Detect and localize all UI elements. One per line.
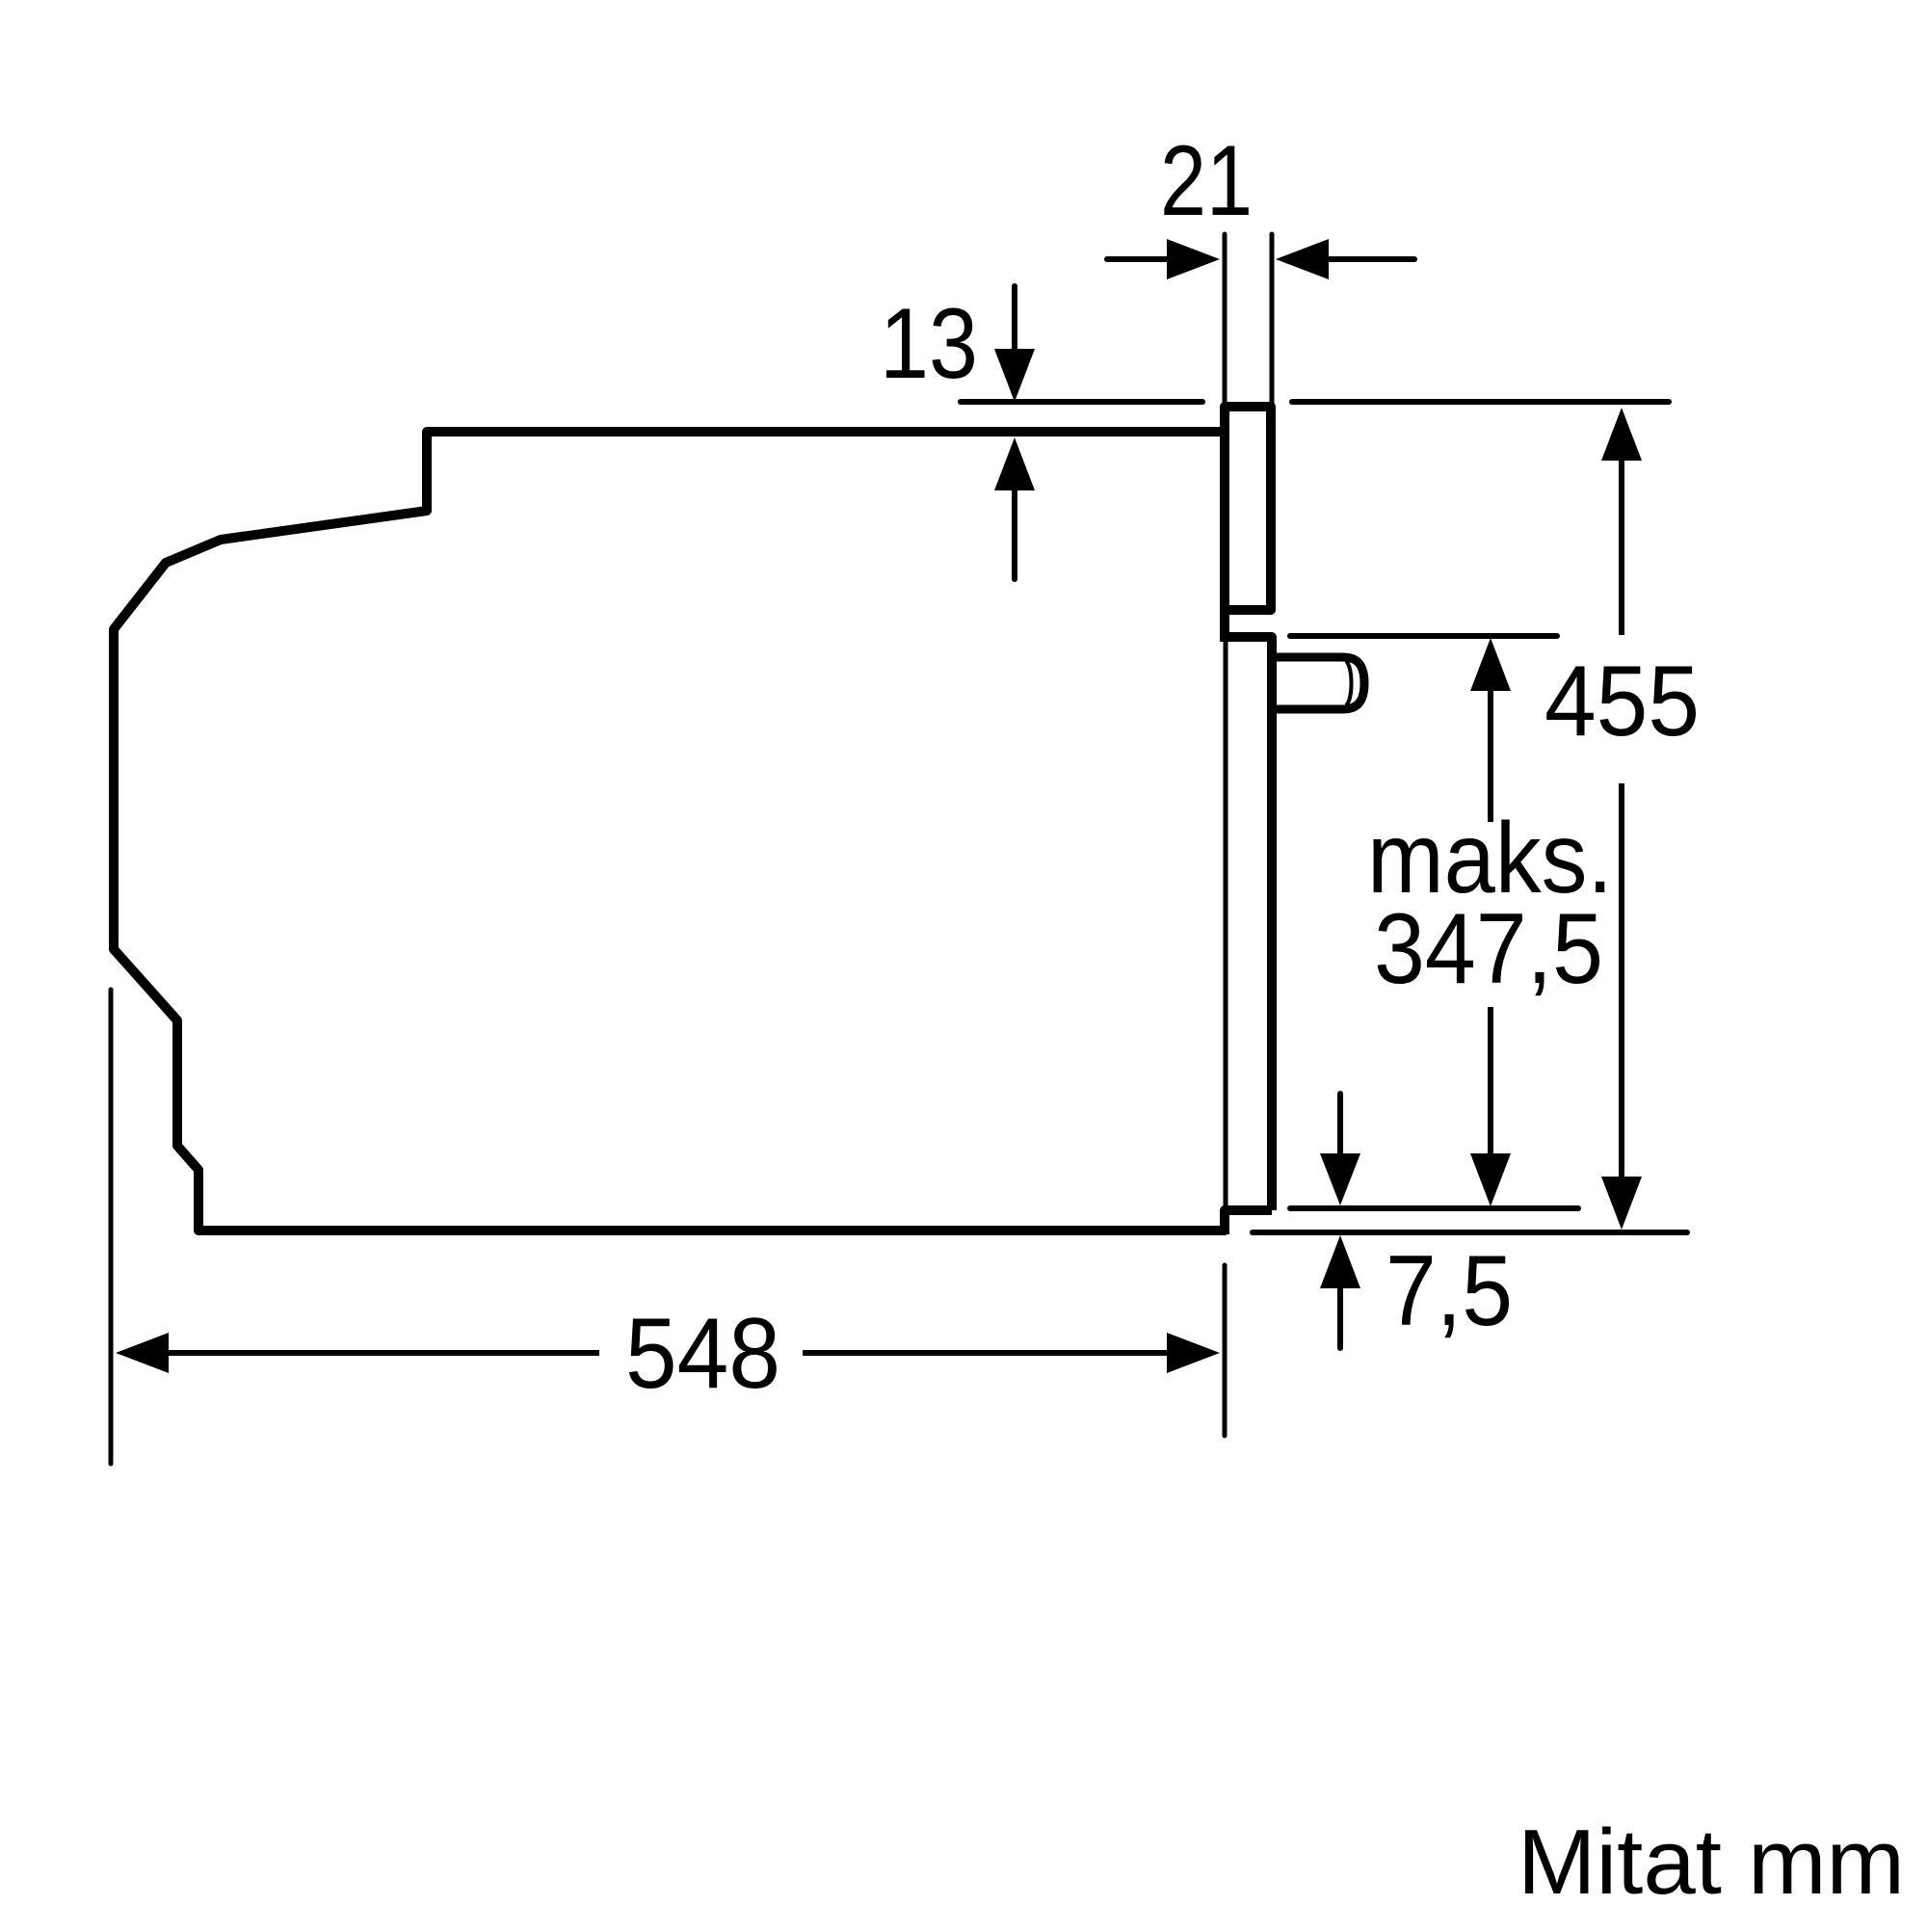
knob cap inner arc	[1347, 662, 1352, 704]
ref line top left	[961, 399, 1202, 405]
dim 455 top arrow	[1601, 408, 1642, 461]
oven body outline	[114, 432, 1225, 1231]
svg-text:13: 13	[880, 288, 978, 400]
svg-text:Mitat mm: Mitat mm	[1518, 1811, 1905, 1914]
dim 347.5 bottom arrow	[1488, 1007, 1493, 1153]
ref line body bottom right	[1253, 1230, 1687, 1235]
dim 455 bottom arrow	[1619, 783, 1624, 1177]
knob	[1272, 657, 1364, 709]
door bottom step	[1225, 1210, 1272, 1234]
dim 7.5 down arrow	[1337, 1094, 1343, 1155]
ref line top right	[1292, 399, 1669, 405]
svg-text:7,5: 7,5	[1386, 1235, 1513, 1347]
ref line door bottom	[1290, 1205, 1578, 1211]
door front face and upper step	[1220, 637, 1272, 1210]
ext line 21 left	[1223, 234, 1227, 446]
dim 21 right arrow	[1327, 256, 1414, 262]
svg-text:455: 455	[1544, 646, 1700, 757]
ext line 548 left	[109, 990, 114, 1464]
dim 548 right arrow	[803, 1350, 1167, 1356]
dim 13 down arrow	[1012, 286, 1017, 351]
svg-text:21: 21	[1160, 125, 1253, 237]
ext line 21 right	[1270, 234, 1275, 446]
dim 347.5 top arrow	[1470, 638, 1511, 691]
door body left line	[1224, 642, 1228, 1207]
dim 7.5 up arrow	[1320, 1235, 1360, 1288]
dim 21 left arrow	[1107, 256, 1171, 262]
dim 13 up arrow	[994, 437, 1035, 490]
dim 548 left arrow	[116, 1333, 169, 1373]
svg-text:347,5: 347,5	[1374, 893, 1603, 1005]
control panel	[1225, 407, 1271, 642]
ref line mid (347.5 top)	[1290, 633, 1557, 639]
ext line 548 right	[1223, 1265, 1227, 1436]
svg-text:548: 548	[625, 1298, 780, 1410]
